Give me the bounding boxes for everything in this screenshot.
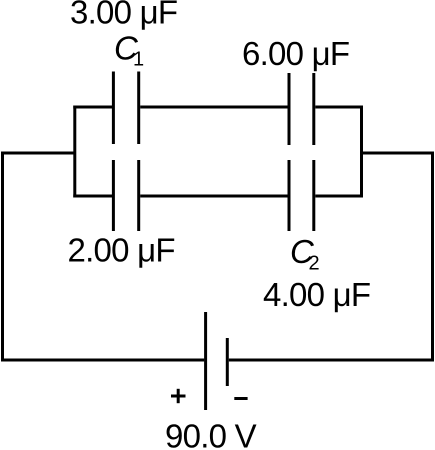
svg-text:6.00 μF: 6.00 μF bbox=[242, 35, 349, 72]
svg-text:1: 1 bbox=[133, 49, 144, 71]
svg-text:2.00 μF: 2.00 μF bbox=[68, 232, 175, 269]
svg-text:90.0 V: 90.0 V bbox=[165, 418, 257, 450]
svg-text:2: 2 bbox=[309, 253, 320, 275]
svg-text:3.00 μF: 3.00 μF bbox=[70, 0, 177, 31]
svg-text:4.00 μF: 4.00 μF bbox=[263, 276, 370, 313]
